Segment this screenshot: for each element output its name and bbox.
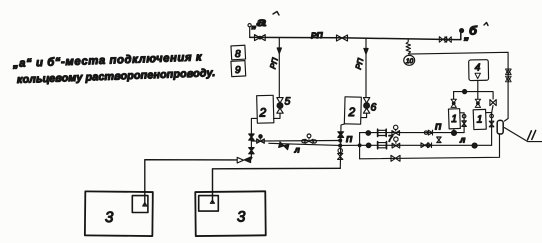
svg-text:„а“ и б“-места подключения к: „а“ и б“-места подключения к [12, 51, 203, 70]
mixer 10 circle [404, 55, 415, 65]
node a tick [273, 12, 279, 16]
union circle on line1 [424, 131, 427, 134]
junction dot line2/vertical [358, 144, 361, 147]
valve on tank2-right drop bowtie [338, 153, 343, 159]
valve w/ handwheel on line1 [394, 125, 398, 129]
hose bottom line [269, 143, 340, 145]
junction dot on header [463, 90, 467, 94]
pump suction vertical [359, 133, 361, 159]
node a stub wire [249, 27, 251, 37]
svg-text:а: а [257, 15, 267, 29]
valve column left bowtie [462, 121, 467, 127]
wire valve6 to tank 2 right [361, 113, 367, 117]
attachment tank3 left [143, 203, 147, 206]
valve column left (handwheel) [462, 114, 466, 118]
ball valve on line2 left [366, 143, 371, 148]
check valve on tank3-left line [237, 157, 243, 163]
svg-text:РП: РП [311, 30, 324, 40]
tank 3 right inner box [199, 196, 219, 212]
svg-text:б: б [469, 24, 478, 38]
wire header left branch [453, 92, 455, 99]
hose top line [251, 140, 338, 143]
pump 7 lower body [378, 143, 386, 148]
tank 2 right [344, 97, 361, 124]
valve on right drop (lower) [506, 76, 512, 82]
svg-text:1: 1 [477, 114, 483, 126]
svg-text:3: 3 [237, 209, 246, 226]
tank 2 left [257, 95, 274, 123]
valve column right (handwheel) [490, 114, 494, 118]
air line from mixer to right drop [408, 52, 508, 121]
wire tank2-right outlet down [340, 124, 345, 169]
svg-text:9: 9 [235, 65, 241, 76]
wire right branch down [492, 106, 493, 146]
valve above doser 1 left [451, 99, 456, 107]
valve V3 double on pipe [439, 37, 446, 43]
small valve on line1 [428, 130, 432, 135]
check valve below tank2 right [338, 132, 344, 138]
svg-text:л: л [294, 145, 301, 155]
svg-text:РП: РП [354, 57, 365, 70]
svg-text:8: 8 [235, 49, 241, 60]
slanted valve on hose [279, 142, 289, 150]
valve column right bowtie [489, 121, 494, 127]
flange circle left [302, 140, 305, 143]
svg-text:6: 6 [371, 102, 377, 114]
junction dot hose top [339, 139, 342, 142]
wire hopper4 down [477, 81, 479, 100]
riser to tank 2 left, junction [278, 38, 280, 98]
valve 5 [277, 98, 283, 103]
valve V1 on pipe at a [255, 35, 266, 41]
suction line from tank3 right [213, 168, 341, 202]
stub doser1-right to valve column [486, 112, 492, 114]
pump line 3 (wash line) [360, 134, 500, 159]
stub doser1-left bottom [453, 129, 455, 131]
header of dosers [454, 92, 494, 99]
hose entrance valve [259, 135, 262, 138]
svg-text:5: 5 [285, 96, 291, 108]
hopper 4 funnel [475, 73, 480, 78]
suction line from tank3 left [145, 160, 237, 206]
pump 7 upper flanges [378, 129, 387, 136]
main pipe (top header) [250, 32, 462, 40]
svg-text:4: 4 [475, 63, 481, 74]
svg-text:2: 2 [348, 105, 356, 119]
valve 6 [363, 98, 369, 103]
riser to tank 2 right, junction [365, 39, 367, 98]
node b tick [484, 23, 488, 26]
svg-text:10: 10 [406, 58, 414, 65]
double valve on line2 [421, 143, 429, 148]
sprayer 11 body [497, 120, 503, 134]
attachment tank3 right [210, 200, 214, 203]
pump line 2 [360, 144, 492, 146]
label 11 [528, 130, 536, 139]
svg-text:2: 2 [259, 106, 267, 120]
valve on header right branch [490, 100, 496, 106]
hopper 4 [469, 60, 489, 81]
svg-text:П: П [346, 134, 353, 144]
node b dot [460, 29, 464, 33]
leader line to label 11 [504, 128, 542, 142]
doser 1 right [473, 109, 486, 129]
valve with handwheel on hose top line [307, 134, 311, 138]
svg-text:РП: РП [268, 57, 279, 70]
crossover valve between line1 and line2 [437, 137, 441, 143]
zigzag flexible insert to mixer 10 [406, 40, 410, 54]
valve V2 on pipe [337, 35, 348, 41]
stub doser1-left to valve column [460, 113, 464, 133]
ball valve on line2 right [472, 143, 477, 148]
ball valve on line1 left [366, 131, 371, 136]
flow arrow on left riser [277, 48, 281, 54]
gauge box 8 [231, 45, 246, 60]
wire check valve to left column [251, 158, 252, 160]
doser 1 left [448, 109, 460, 129]
flange circle right [313, 140, 316, 143]
wire tank2-left outlet [251, 118, 257, 157]
valve w/ handwheel on line2 [394, 137, 398, 141]
svg-text:П: П [435, 122, 442, 132]
wire valve5 to tank 2 left [274, 113, 281, 118]
pump 7 lower flanges [378, 142, 387, 149]
valve on left column upper [249, 134, 254, 140]
svg-text:л: л [459, 135, 466, 145]
tank 3 left [85, 191, 153, 236]
node a connection circle [248, 24, 251, 27]
valve on left column lower [249, 148, 254, 154]
tank 3 right [195, 191, 265, 236]
svg-text:кольцевому растворопенопроводу: кольцевому растворопенопроводу. [17, 67, 216, 86]
junction dot hose bottom [339, 144, 342, 147]
pump 7 upper body [378, 130, 386, 135]
ball valve on line1 right [452, 130, 457, 135]
valve on right drop (upper) [506, 69, 512, 75]
wire pump feed cross [340, 144, 359, 146]
valve above doser 1 right [475, 99, 480, 107]
svg-text:3: 3 [105, 209, 114, 226]
svg-text:1: 1 [451, 113, 457, 125]
tank 3 left inner box [132, 196, 148, 213]
flow arrow on right riser [364, 49, 368, 55]
valve on line3 [391, 155, 400, 161]
pump line 1 [360, 132, 465, 134]
valve on tank2-right drop (handwheel) [338, 148, 342, 152]
gauge box 9 [231, 61, 246, 77]
